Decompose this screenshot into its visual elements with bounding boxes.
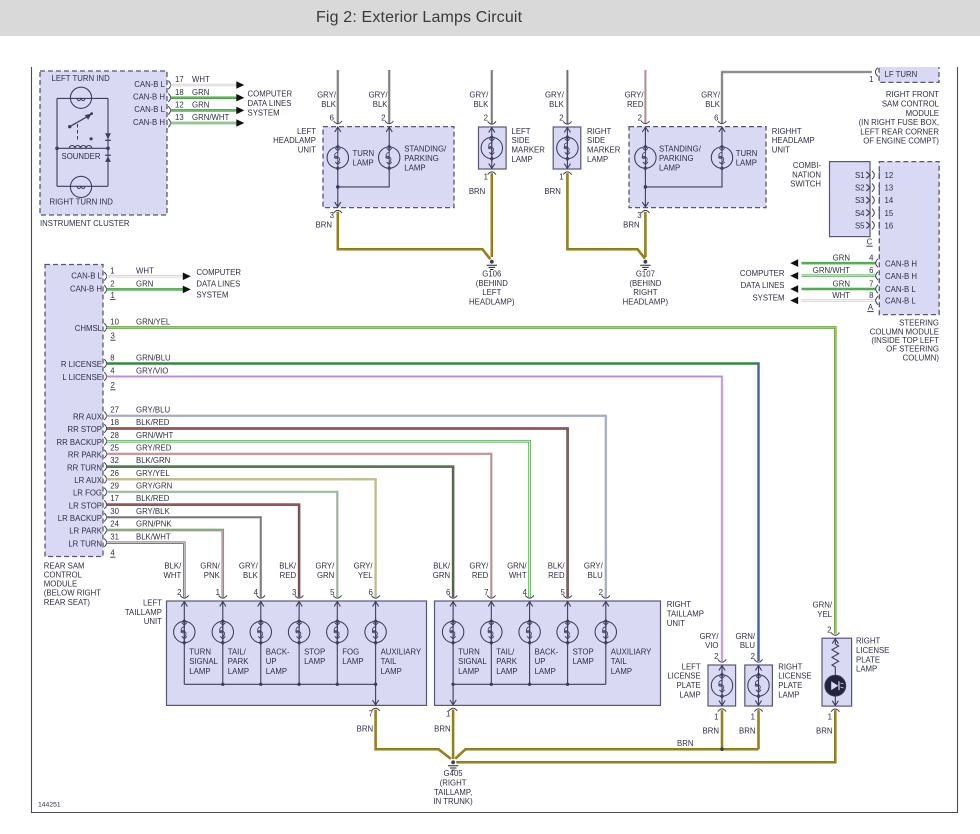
wire GRN from instrument cluster pin 18 to data-line arrow [171, 96, 237, 99]
LED lamp [825, 675, 846, 696]
svg-text:LAMP: LAMP [573, 657, 594, 666]
svg-text:1: 1 [828, 712, 832, 721]
pin 1 exit [754, 709, 762, 712]
svg-text:LEFT REAR CORNER: LEFT REAR CORNER [860, 127, 939, 136]
svg-text:GRN/: GRN/ [813, 601, 833, 610]
node dot [90, 137, 93, 140]
lamp TURN LAMP (left headlamp) [327, 145, 348, 170]
svg-text:GRN/YEL: GRN/YEL [136, 317, 171, 326]
svg-text:7: 7 [869, 279, 873, 288]
svg-text:BRN: BRN [816, 726, 832, 735]
svg-text:R LICENSE: R LICENSE [61, 360, 102, 369]
svg-text:2: 2 [110, 279, 114, 288]
wire BRN left headlamp pin3 to G106 [338, 212, 491, 259]
svg-text:BACK-: BACK- [266, 648, 290, 657]
svg-text:GRN: GRN [192, 88, 209, 97]
svg-text:29: 29 [110, 482, 119, 491]
pin 1 exit [718, 709, 726, 712]
svg-text:AUXILIARY: AUXILIARY [611, 648, 652, 657]
svg-text:LR TURN: LR TURN [68, 539, 102, 548]
wire BRN ground bus to G405 [455, 749, 758, 759]
left taillamp unit box [167, 601, 427, 705]
wire BRN LED lamp to G405 [456, 710, 835, 762]
svg-text:A: A [868, 303, 874, 312]
wire BLK/WHT from rear SAM pin 31 (LR TURN) to taillamp [107, 543, 185, 598]
svg-text:18: 18 [110, 418, 119, 427]
data line arrow (left) [790, 285, 798, 293]
svg-text:GRN/WHT: GRN/WHT [136, 431, 173, 440]
svg-text:BRN: BRN [357, 725, 373, 734]
svg-text:GRY/RED: GRY/RED [136, 444, 172, 453]
svg-text:1: 1 [869, 75, 873, 84]
svg-text:WHT: WHT [192, 75, 210, 84]
junction node [336, 185, 340, 189]
wire BRN right license plate lamp to ground bus [757, 710, 760, 749]
svg-text:GRN/: GRN/ [507, 562, 527, 571]
svg-text:BLK/GRN: BLK/GRN [136, 456, 170, 465]
wire GRY/BLK from LF TURN (right front SAM) to right headlamp pin 6 [722, 72, 872, 123]
svg-text:RR BACKUP: RR BACKUP [57, 438, 103, 447]
svg-text:RIGHT: RIGHT [587, 127, 611, 136]
svg-text:SWITCH: SWITCH [790, 180, 821, 189]
svg-text:2: 2 [559, 114, 563, 123]
svg-text:LAMP: LAMP [587, 155, 608, 164]
svg-text:12: 12 [885, 171, 894, 180]
svg-text:6: 6 [446, 588, 450, 597]
svg-text:16: 16 [885, 221, 894, 230]
svg-text:4: 4 [110, 366, 115, 375]
wire GRY/BLK to right side marker pin 2 [566, 70, 569, 124]
svg-text:TURN: TURN [353, 149, 375, 158]
svg-text:BLK/: BLK/ [548, 562, 566, 571]
lamp TURN LAMP (right headlamp) [711, 145, 732, 170]
svg-text:LAMP: LAMP [381, 667, 402, 676]
svg-text:L LICENSE: L LICENSE [62, 373, 102, 382]
svg-text:26: 26 [110, 469, 119, 478]
wire GRN/BLU from rear SAM pin 8 to right license plate lamp [107, 364, 759, 662]
lamp STOP LAMP (right taillamp) [567, 601, 569, 684]
svg-text:STOP: STOP [573, 648, 594, 657]
svg-text:STOP: STOP [304, 648, 325, 657]
wire BRN left taillamp pin 7 to G405 [376, 710, 451, 759]
svg-text:GRN: GRN [833, 254, 850, 263]
svg-text:LAMP: LAMP [856, 665, 877, 674]
svg-text:TURN: TURN [458, 648, 480, 657]
svg-text:RR AUX: RR AUX [73, 413, 103, 422]
svg-text:144251: 144251 [38, 802, 61, 809]
combination switch box [830, 162, 871, 237]
wire GRN from instrument cluster pin 12 to data-line arrow [171, 109, 237, 112]
bus junction node [451, 683, 454, 686]
wire BLK/RED from rear SAM pin 17 (LR STOP) to taillamp [107, 505, 300, 598]
svg-text:CAN-B L: CAN-B L [885, 285, 916, 294]
svg-text:8: 8 [869, 291, 873, 300]
wire BLK/RED from rear SAM pin 18 (RR STOP) to taillamp [107, 429, 568, 598]
svg-text:SIDE: SIDE [512, 136, 530, 145]
svg-text:BLK/RED: BLK/RED [136, 418, 170, 427]
svg-text:GRY/: GRY/ [239, 562, 259, 571]
pin 3 exit [334, 210, 342, 213]
svg-text:YEL: YEL [358, 571, 373, 580]
wire GRN/PNK from rear SAM pin 24 (LR PARK) to taillamp [107, 530, 223, 597]
svg-text:GRN: GRN [317, 571, 334, 580]
wire GRY/BLK from rear SAM pin 30 (LR BACKUP) to taillamp [107, 517, 261, 597]
svg-text:25: 25 [110, 444, 119, 453]
svg-text:RR STOP: RR STOP [67, 425, 102, 434]
svg-text:UP: UP [535, 657, 546, 666]
svg-text:BLK/: BLK/ [164, 562, 182, 571]
svg-text:WHT: WHT [136, 266, 154, 275]
svg-text:GRY/BLK: GRY/BLK [136, 507, 170, 516]
svg-text:2: 2 [484, 114, 488, 123]
svg-text:SYSTEM: SYSTEM [196, 290, 228, 299]
wire GRN/WHT steering column module pin 6 to data-line arrow [802, 275, 876, 278]
svg-text:GRY/YEL: GRY/YEL [136, 469, 170, 478]
svg-text:GRY/GRN: GRY/GRN [136, 482, 172, 491]
svg-text:LR AUX: LR AUX [74, 476, 103, 485]
svg-text:AUXILIARY: AUXILIARY [381, 648, 422, 657]
svg-text:GRN: GRN [136, 279, 153, 288]
svg-text:PARK: PARK [228, 657, 249, 666]
svg-text:BLK: BLK [474, 100, 490, 109]
svg-text:LR STOP: LR STOP [69, 501, 102, 510]
svg-text:GRY/: GRY/ [369, 91, 389, 100]
wire GRY/RED from rear SAM pin 25 (RR PARK) to taillamp [107, 454, 492, 597]
left side marker lamp box [479, 127, 507, 169]
svg-text:S5: S5 [855, 221, 865, 230]
data line arrow (left) [790, 259, 798, 267]
svg-text:YEL: YEL [817, 610, 832, 619]
svg-text:GRN/: GRN/ [200, 562, 220, 571]
junction dots [55, 147, 59, 151]
svg-text:GRN/WHT: GRN/WHT [192, 113, 229, 122]
svg-text:GRY/: GRY/ [315, 562, 335, 571]
svg-text:RED: RED [627, 100, 644, 109]
pin 1 connector [875, 68, 877, 76]
svg-text:GRN/BLU: GRN/BLU [136, 353, 171, 362]
svg-text:Fig 2: Exterior Lamps Circuit: Fig 2: Exterior Lamps Circuit [316, 9, 523, 26]
wire WHT rear SAM pin 1 to data-line arrow [107, 275, 183, 278]
svg-text:CAN-B H: CAN-B H [70, 284, 102, 293]
svg-text:RIGHT TURN IND: RIGHT TURN IND [50, 198, 114, 207]
svg-text:BRN: BRN [677, 739, 693, 748]
svg-text:SYSTEM: SYSTEM [248, 108, 280, 117]
svg-text:COLUMN MODULE: COLUMN MODULE [870, 327, 939, 336]
svg-text:HEADLAMP): HEADLAMP) [469, 298, 515, 307]
svg-text:NATION: NATION [792, 170, 821, 179]
svg-text:3: 3 [111, 331, 115, 340]
svg-text:3: 3 [637, 211, 641, 220]
header bar [0, 0, 980, 36]
wire BRN left license plate lamp to ground bus [721, 710, 724, 749]
svg-text:TAILLAMP: TAILLAMP [667, 610, 704, 619]
svg-text:RIGHT FRONT: RIGHT FRONT [886, 90, 939, 99]
svg-text:GRY/BLU: GRY/BLU [136, 405, 170, 414]
ground G106 [490, 260, 494, 264]
svg-text:G106: G106 [482, 270, 501, 279]
wire GRN/WHT from instrument cluster pin 13 to data-line arrow [171, 122, 237, 125]
svg-text:CAN-B L: CAN-B L [885, 297, 916, 306]
svg-text:CAN-B H: CAN-B H [885, 259, 917, 268]
right front SAM control module box (LF TURN, clipped at top) [879, 60, 939, 82]
svg-text:RIGHT: RIGHT [667, 600, 691, 609]
svg-text:PNK: PNK [204, 571, 221, 580]
svg-text:LAMP: LAMP [342, 657, 363, 666]
switch (turn signal) [68, 112, 93, 128]
ground G405 [451, 760, 455, 764]
lamp symbol [566, 127, 568, 169]
svg-text:CAN-B L: CAN-B L [71, 271, 102, 280]
svg-text:BLK: BLK [321, 100, 337, 109]
svg-text:GRY/: GRY/ [545, 91, 565, 100]
svg-text:(RIGHT: (RIGHT [440, 779, 467, 788]
svg-text:BRN: BRN [739, 726, 755, 735]
lamp AUXILIARY TAIL LAMP (left taillamp) [375, 601, 377, 684]
svg-text:LAMP: LAMP [304, 657, 325, 666]
lamp STANDING/PARKING LAMP (right headlamp) [635, 145, 656, 170]
svg-text:LAMP: LAMP [228, 667, 249, 676]
svg-text:4: 4 [254, 588, 259, 597]
svg-text:27: 27 [110, 405, 119, 414]
internal bus wire [184, 683, 375, 685]
svg-text:GRN/: GRN/ [736, 632, 756, 641]
exit wire pin 7 [375, 684, 377, 705]
svg-text:LAMP: LAMP [679, 690, 700, 699]
svg-text:STANDING/: STANDING/ [404, 145, 447, 154]
svg-text:LAMP: LAMP [353, 159, 374, 168]
pin 3 exit [641, 210, 649, 213]
pin 13 [878, 184, 880, 191]
svg-text:WHT: WHT [164, 571, 182, 580]
svg-text:GRY/: GRY/ [354, 562, 374, 571]
svg-text:6: 6 [368, 588, 372, 597]
svg-text:STANDING/: STANDING/ [659, 145, 702, 154]
lamp STOP LAMP (left taillamp) [298, 601, 300, 684]
svg-text:INSTRUMENT CLUSTER: INSTRUMENT CLUSTER [40, 219, 130, 228]
svg-text:RR TURN: RR TURN [67, 463, 102, 472]
svg-text:RED: RED [548, 571, 565, 580]
wire GRY/BLK to left headlamp pin 2 [388, 70, 391, 123]
right headlamp unit box [629, 127, 766, 208]
left headlamp unit box [323, 127, 454, 208]
svg-text:WHT: WHT [832, 291, 850, 300]
svg-text:RR PARK: RR PARK [68, 451, 103, 460]
data line arrow [236, 94, 244, 102]
svg-text:GRN: GRN [192, 101, 209, 110]
svg-text:UNIT: UNIT [144, 617, 162, 626]
svg-text:(BELOW RIGHT: (BELOW RIGHT [44, 589, 101, 598]
svg-text:(INSIDE TOP LEFT: (INSIDE TOP LEFT [871, 336, 939, 345]
instrument cluster box [40, 71, 167, 215]
svg-text:GRY/: GRY/ [317, 91, 337, 100]
svg-text:SIGNAL: SIGNAL [189, 657, 218, 666]
svg-text:3: 3 [330, 211, 334, 220]
svg-text:S3: S3 [855, 196, 865, 205]
svg-text:BRN: BRN [434, 725, 450, 734]
svg-text:COLUMN): COLUMN) [903, 353, 940, 362]
svg-text:UNIT: UNIT [772, 146, 790, 155]
svg-text:GRN/PNK: GRN/PNK [136, 520, 172, 529]
svg-text:LF TURN: LF TURN [885, 70, 918, 79]
wire GRN/WHT from rear SAM pin 28 (RR BACKUP) to taillamp [107, 441, 530, 597]
svg-text:RIGHHT: RIGHHT [772, 127, 802, 136]
svg-text:C: C [867, 237, 873, 246]
svg-text:6: 6 [869, 266, 873, 275]
svg-text:UNIT: UNIT [298, 146, 316, 155]
bus junction node [566, 683, 569, 686]
svg-text:7: 7 [368, 710, 372, 719]
svg-text:COMPUTER: COMPUTER [196, 268, 241, 277]
lamp TURN SIGNAL LAMP (right taillamp) [452, 601, 454, 684]
svg-text:31: 31 [110, 532, 119, 541]
wire GRY/RED to right headlamp pin 2 [644, 70, 647, 123]
svg-text:LAMP: LAMP [512, 155, 533, 164]
svg-text:13: 13 [175, 113, 184, 122]
svg-text:LAMP: LAMP [189, 667, 210, 676]
lamp TURN SIGNAL LAMP (left taillamp) [183, 601, 185, 684]
svg-text:SIDE: SIDE [587, 136, 605, 145]
svg-text:BLK/RED: BLK/RED [136, 494, 170, 503]
wire GRN steering column module pin 4 to data-line arrow [802, 262, 876, 265]
svg-text:LAMP: LAMP [266, 667, 287, 676]
svg-text:CAN-B L: CAN-B L [134, 105, 165, 114]
svg-text:PLATE: PLATE [778, 681, 802, 690]
svg-text:3: 3 [292, 588, 296, 597]
svg-text:LR BACKUP: LR BACKUP [58, 514, 102, 523]
svg-text:TAIL: TAIL [611, 657, 628, 666]
data line arrow [183, 273, 191, 281]
svg-text:DATA LINES: DATA LINES [196, 279, 240, 288]
svg-text:BLK: BLK [549, 100, 565, 109]
wire GRY/BLU from rear SAM pin 27 (RR AUX) to taillamp [107, 416, 606, 597]
svg-text:1: 1 [110, 266, 114, 275]
svg-text:CAN-B H: CAN-B H [133, 93, 165, 102]
svg-text:CAN-B H: CAN-B H [133, 118, 165, 127]
wire GRY/BLK to left side marker pin 2 [491, 70, 494, 124]
svg-text:LAMP: LAMP [659, 163, 680, 172]
svg-text:LAMP: LAMP [736, 159, 757, 168]
resistor [832, 638, 839, 675]
bus junction node [528, 683, 531, 686]
svg-text:TAIL/: TAIL/ [228, 648, 247, 657]
pin 16 [878, 222, 880, 229]
svg-text:BLK: BLK [243, 571, 259, 580]
pin 1 exit [488, 172, 496, 175]
svg-text:LR FOG: LR FOG [73, 489, 102, 498]
svg-text:TURN: TURN [189, 648, 211, 657]
lamp symbol [758, 665, 760, 706]
right taillamp unit box [435, 601, 661, 705]
lamp BACK- UP LAMP (left taillamp) [260, 601, 262, 684]
svg-text:OF STEERING: OF STEERING [886, 345, 939, 354]
svg-text:G405: G405 [444, 769, 464, 778]
data line arrow [236, 119, 244, 127]
svg-text:RIGHT: RIGHT [778, 662, 802, 671]
wire BLK/GRN from rear SAM pin 32 (RR TURN) to taillamp [107, 467, 454, 598]
svg-text:RED: RED [472, 571, 489, 580]
svg-text:CONTROL: CONTROL [44, 571, 83, 580]
svg-text:DATA LINES: DATA LINES [741, 281, 785, 290]
svg-text:GRY/: GRY/ [469, 562, 489, 571]
svg-text:GRY/VIO: GRY/VIO [136, 366, 168, 375]
internal wiring [338, 127, 389, 208]
pin 12 [878, 172, 880, 179]
svg-text:LAMP: LAMP [404, 163, 425, 172]
data line arrow [183, 286, 191, 294]
svg-text:1: 1 [751, 712, 755, 721]
wire loop inside instrument cluster [57, 98, 108, 186]
svg-text:COMPUTER: COMPUTER [248, 89, 293, 98]
svg-text:VIO: VIO [705, 641, 718, 650]
lamp AUXILIARY TAIL LAMP (right taillamp) [605, 601, 607, 684]
svg-text:4: 4 [522, 588, 527, 597]
svg-text:1: 1 [714, 712, 718, 721]
svg-text:BRN: BRN [623, 221, 639, 230]
svg-text:5: 5 [330, 588, 335, 597]
svg-text:UNIT: UNIT [667, 619, 685, 628]
wire BRN left side marker to G106 [491, 173, 494, 257]
svg-text:13: 13 [885, 184, 894, 193]
svg-text:LEFT: LEFT [143, 598, 162, 607]
svg-text:LAMP: LAMP [611, 667, 632, 676]
svg-text:BACK-: BACK- [535, 648, 559, 657]
data line arrow (left) [790, 297, 798, 305]
svg-text:17: 17 [175, 75, 184, 84]
ground G107 [644, 260, 648, 264]
svg-text:BRN: BRN [469, 187, 485, 196]
svg-text:BLK/WHT: BLK/WHT [136, 532, 171, 541]
pin 1 exit [563, 172, 571, 175]
svg-text:17: 17 [110, 494, 119, 503]
svg-text:GRY/: GRY/ [700, 632, 720, 641]
exit wire pin 1 [452, 684, 454, 705]
right license plate lamp (LED) box [822, 638, 852, 706]
bus junction node [221, 683, 224, 686]
svg-text:1: 1 [484, 172, 488, 181]
svg-text:1: 1 [446, 710, 450, 719]
svg-text:PARKING: PARKING [659, 154, 694, 163]
svg-text:REAR SEAT): REAR SEAT) [44, 598, 91, 607]
wire BRN right headlamp pin3 to G107 [644, 212, 647, 257]
svg-text:RIGHT: RIGHT [633, 288, 657, 297]
svg-text:5: 5 [560, 588, 565, 597]
svg-text:LEFT TURN IND: LEFT TURN IND [52, 74, 111, 83]
svg-text:CAN-B H: CAN-B H [885, 272, 917, 281]
junction node [644, 185, 648, 189]
lamp FOG LAMP (left taillamp) [336, 601, 338, 684]
svg-text:LICENSE: LICENSE [667, 672, 700, 681]
svg-text:2: 2 [111, 381, 115, 390]
lamp TAIL/ PARK LAMP (left taillamp) [222, 601, 224, 684]
diode D2 (up) [105, 155, 111, 162]
svg-text:LAMP: LAMP [496, 667, 517, 676]
svg-text:18: 18 [175, 88, 184, 97]
svg-text:TURN: TURN [736, 149, 758, 158]
svg-text:LEFT: LEFT [482, 288, 501, 297]
svg-text:LR PARK: LR PARK [69, 527, 103, 536]
svg-text:BLK: BLK [373, 100, 389, 109]
lamp RIGHT TURN IND [70, 176, 91, 197]
wire GRN steering column module pin 7 to data-line arrow [802, 288, 876, 291]
svg-text:MARKER: MARKER [512, 146, 546, 155]
svg-text:12: 12 [175, 101, 184, 110]
svg-text:CHMSL: CHMSL [75, 324, 103, 333]
data line arrow [236, 81, 244, 89]
svg-text:BRN: BRN [703, 726, 719, 735]
diode D1 (down) [105, 133, 111, 140]
svg-text:MODULE: MODULE [906, 109, 939, 118]
svg-text:28: 28 [110, 431, 119, 440]
